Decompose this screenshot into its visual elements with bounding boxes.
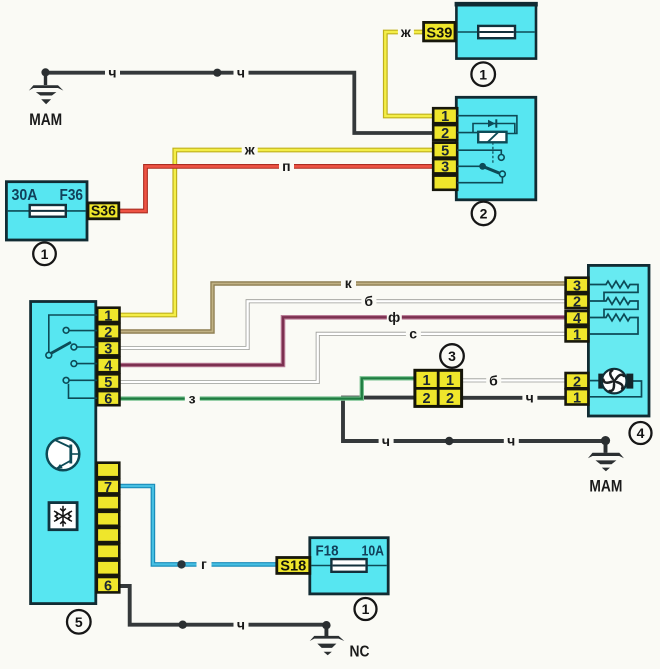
ground MAM top left — [29, 68, 64, 129]
label ч on ground wire left — [105, 64, 120, 80]
wire black: controller pin 6 bottom to ground NC — [119, 586, 327, 636]
label ж top yellow wire — [398, 24, 414, 40]
label ч black wire connector to motor — [522, 390, 537, 406]
svg-text:10A: 10A — [362, 543, 385, 560]
svg-text:1: 1 — [446, 373, 454, 389]
controller pin 6 — [97, 391, 119, 408]
wire red: fuse S36 to relay pin 3 — [118, 166, 434, 211]
label ч bottom right wire 1 — [379, 433, 394, 449]
wire black: connector X pin 2 to motor pin 1 — [462, 396, 567, 400]
relay pin 1 — [433, 108, 457, 125]
svg-text:ф: ф — [388, 309, 400, 325]
wire brown: controller pin 2 to resistor pin 3 — [119, 284, 567, 332]
ground MAM bottom right — [588, 440, 624, 496]
svg-text:5: 5 — [441, 144, 449, 160]
svg-text:3: 3 — [104, 342, 112, 358]
circle label 5 — [67, 610, 91, 634]
label ч bottom wire — [234, 617, 249, 633]
controller switch internal — [49, 315, 97, 398]
svg-text:4: 4 — [637, 425, 645, 441]
svg-text:1: 1 — [423, 373, 431, 389]
fan motor M — [590, 369, 642, 397]
svg-text:с: с — [409, 326, 417, 342]
transistor symbol — [47, 438, 80, 471]
svg-text:6: 6 — [104, 579, 112, 595]
circle label 1 left — [33, 243, 56, 266]
svg-text:5: 5 — [75, 614, 83, 630]
svg-text:1: 1 — [104, 308, 112, 324]
controller lower pin blank d — [97, 528, 120, 542]
label б white wire connector to motor — [486, 372, 501, 388]
controller pin 2 — [97, 324, 119, 341]
svg-text:5: 5 — [104, 375, 112, 391]
circle label 1 top right — [471, 62, 495, 86]
relay pin 5 — [433, 143, 457, 160]
svg-text:ч: ч — [526, 390, 534, 406]
controller lower pin blank f — [97, 561, 120, 575]
svg-text:2: 2 — [423, 391, 431, 407]
svg-text:1: 1 — [362, 601, 370, 617]
switch contact 4 — [71, 361, 77, 367]
svg-text:з: з — [189, 391, 196, 407]
controller lower pin blank a — [97, 463, 120, 478]
fuse box F36 unit — [6, 182, 87, 240]
svg-text:2: 2 — [441, 126, 449, 142]
controller box — [31, 302, 96, 604]
label б white wire — [361, 293, 376, 309]
controller pin 3 — [97, 341, 119, 358]
label з green wire — [185, 391, 200, 407]
resistor pin 3 — [566, 278, 589, 295]
label ч on ground wire right — [234, 64, 249, 80]
svg-text:2: 2 — [104, 325, 112, 341]
resistor block box — [588, 265, 649, 416]
svg-text:ч: ч — [507, 433, 515, 449]
switch pivot and arm — [46, 342, 71, 358]
svg-text:к: к — [345, 275, 353, 291]
svg-text:F18: F18 — [316, 543, 339, 560]
svg-text:1: 1 — [41, 246, 49, 262]
controller lower pin blank b — [97, 496, 120, 510]
relay switch contacts — [479, 155, 505, 177]
svg-text:МАМ: МАМ — [29, 110, 62, 129]
relay diode — [488, 119, 496, 127]
switch contact 3 — [71, 344, 77, 350]
resistor pin 1 — [566, 327, 589, 344]
svg-text:ч: ч — [237, 617, 245, 633]
snowflake A/C symbol — [49, 503, 77, 530]
wire gray: controller pin 5 to resistor pin 1 — [119, 334, 567, 382]
label ч bottom right wire 2 — [504, 433, 519, 449]
junction on black ground wire — [213, 69, 221, 77]
label г blue wire — [197, 556, 212, 572]
svg-text:ч: ч — [108, 64, 116, 80]
fuse box S39 unit — [455, 3, 538, 58]
label с gray wire — [406, 326, 421, 342]
resistor R2 — [590, 298, 638, 318]
svg-text:1: 1 — [573, 391, 581, 407]
relay pin 3 — [433, 159, 457, 176]
wire black: connector X pin 2 to ground MAM right — [343, 398, 606, 453]
svg-text:S36: S36 — [91, 204, 116, 220]
resistor R1 — [590, 281, 638, 301]
wire white: connector X pin 1 to motor pin 2 — [462, 378, 567, 382]
svg-text:1: 1 — [441, 109, 449, 125]
relay pin blank — [433, 176, 457, 190]
svg-text:ч: ч — [237, 64, 245, 80]
connector S39 — [424, 22, 455, 41]
connector S18 — [277, 558, 310, 575]
svg-text:3: 3 — [441, 160, 449, 176]
relay K box — [456, 97, 536, 200]
svg-text:2: 2 — [480, 206, 488, 222]
junction on blue wire — [177, 560, 185, 568]
node: ground end dot bottom — [322, 621, 330, 629]
switch contact 5 — [63, 377, 69, 383]
circle label 3 — [440, 344, 464, 368]
wire yellow: relay pin 5 to controller pin 1 — [119, 150, 435, 315]
label ф violet wire — [387, 309, 402, 325]
svg-text:ч: ч — [382, 433, 390, 449]
svg-text:S18: S18 — [280, 558, 306, 574]
wire green: controller pin 6 to connector X pin 1 — [119, 378, 416, 398]
resistor R3 — [590, 314, 638, 334]
fuse element F36 — [30, 205, 66, 217]
ground NC bottom — [310, 625, 370, 661]
controller pin 5 — [97, 374, 119, 391]
svg-text:1: 1 — [573, 328, 581, 344]
svg-text:б: б — [489, 372, 498, 388]
fuse box F18 unit — [310, 538, 388, 594]
controller pin 6 bottom — [97, 577, 120, 595]
svg-text:30A: 30A — [12, 187, 38, 204]
label п red wire — [279, 158, 294, 174]
svg-text:п: п — [282, 158, 290, 174]
svg-text:F36: F36 — [60, 187, 84, 204]
fuse element top right — [478, 26, 515, 38]
connector X body — [415, 370, 462, 406]
motor pin 1 — [566, 389, 589, 407]
controller pin 7 — [97, 479, 120, 495]
wire blue: controller pin 7 to fuse S18 — [119, 486, 278, 564]
switch contact 2 — [63, 327, 69, 333]
svg-text:МАМ: МАМ — [589, 477, 622, 496]
label к brown wire — [341, 275, 356, 291]
svg-text:S39: S39 — [426, 25, 452, 41]
wire yellow: fuse S39 to relay pin 1 — [385, 32, 434, 116]
svg-text:ж: ж — [244, 142, 256, 158]
relay internal wiring — [457, 116, 517, 183]
motor pin 2 — [566, 373, 589, 390]
controller lower pin blank e — [97, 544, 120, 558]
svg-text:ж: ж — [400, 24, 412, 40]
wire black: ground MAM to relay K pin 2 — [46, 73, 435, 133]
svg-text:2: 2 — [573, 295, 581, 311]
svg-text:NC: NC — [350, 644, 370, 661]
svg-text:2: 2 — [446, 391, 454, 407]
connector S36 — [88, 203, 119, 220]
svg-text:б: б — [364, 293, 373, 309]
controller pin 1 — [97, 308, 119, 325]
controller pin 4 — [97, 358, 119, 375]
svg-text:3: 3 — [448, 348, 456, 364]
controller lower pin blank c — [97, 512, 120, 526]
svg-text:7: 7 — [104, 480, 112, 496]
junction on bottom right black wire — [445, 437, 453, 445]
junction on bottom black wire — [179, 621, 187, 629]
wire violet: controller pin 4 to resistor pin 4 — [119, 317, 567, 365]
resistor pin 2 — [566, 294, 589, 310]
relay pin 2 — [433, 125, 457, 142]
circle label 1 bottom — [355, 598, 377, 620]
resistor pin 4 — [566, 311, 589, 327]
svg-text:3: 3 — [573, 278, 581, 294]
wire white: controller pin 3 to resistor pin 2 — [119, 301, 567, 348]
node: ground end dot right — [601, 436, 610, 445]
svg-text:4: 4 — [573, 311, 581, 327]
svg-text:1: 1 — [479, 66, 487, 82]
svg-text:6: 6 — [104, 392, 112, 408]
fuse element F18 — [331, 559, 366, 572]
label ж middle yellow wire — [242, 142, 258, 158]
svg-text:г: г — [201, 556, 207, 572]
circle label 2 — [472, 202, 496, 226]
circle label 4 — [630, 422, 652, 444]
svg-text:4: 4 — [104, 358, 112, 374]
relay coil — [478, 132, 506, 164]
